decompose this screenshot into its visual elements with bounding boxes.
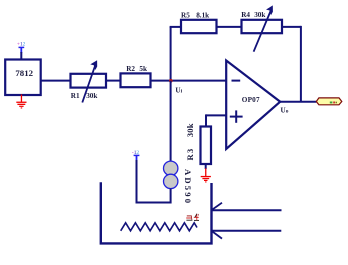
wire plus input from R3 (206, 114, 227, 116)
svg-text:R3: R3 (185, 148, 195, 161)
svg-text:5k: 5k (139, 65, 147, 73)
enclosure (oven) open-top box (101, 182, 212, 243)
wire power bar down and right to AD590 bottom (136, 160, 138, 203)
junction dot node U1 (169, 79, 173, 83)
svg-text:R1: R1 (71, 92, 80, 100)
heater resistor zigzag (121, 223, 197, 231)
ground under 7812 (16, 95, 26, 109)
svg-text:AD590: AD590 (183, 169, 193, 205)
op-amp U3 OP07 (226, 61, 280, 150)
wire R1 to R2 (106, 80, 121, 82)
resistor R2 5k (121, 65, 151, 87)
sensor AD590 (two circles) (164, 161, 193, 205)
flow arrow upper (harpoon into oven) (212, 203, 282, 211)
svg-text:30k: 30k (254, 11, 265, 19)
wire node U1 down to AD590 (170, 81, 172, 162)
svg-text:Ui: Ui (175, 87, 182, 95)
resistor R3 30k (185, 123, 211, 164)
wire R4 right to feedback corner and down to output (282, 26, 301, 28)
wire node U1 up to top branch (170, 27, 172, 81)
power +12 bar above 7812 (19, 47, 25, 53)
svg-text:-12: -12 (132, 150, 140, 156)
svg-text:R5: R5 (181, 12, 190, 20)
svg-text:+12: +12 (17, 42, 26, 48)
wire power to 7812 (20, 52, 22, 60)
svg-text:Uo: Uo (281, 106, 289, 114)
power -12 bar left of AD590 (134, 155, 140, 161)
svg-text:R2: R2 (126, 65, 135, 73)
output port Uo (yellow) (316, 98, 342, 105)
svg-text:7812: 7812 (15, 68, 33, 78)
output wire (280, 101, 316, 103)
svg-text:30k: 30k (86, 92, 97, 100)
wire R2 to op-amp minus input (151, 80, 227, 82)
svg-text:OP07: OP07 (242, 96, 260, 104)
resistor R5 8.1k (181, 12, 217, 34)
ground under R3 (201, 164, 211, 183)
resistor R1 30k variable (71, 60, 107, 102)
wire 7812 to R1 (41, 80, 71, 82)
flow arrow lower (harpoon into oven) (212, 231, 282, 239)
wire R5 to R4 (217, 26, 242, 28)
svg-text:8.1k: 8.1k (196, 12, 209, 20)
heater label (red tiny glyphs) (186, 214, 199, 221)
svg-text:R4: R4 (241, 11, 250, 19)
svg-text:30k: 30k (185, 123, 195, 137)
regulator U2 7812 (5, 60, 41, 96)
resistor R4 30k variable (241, 5, 282, 51)
